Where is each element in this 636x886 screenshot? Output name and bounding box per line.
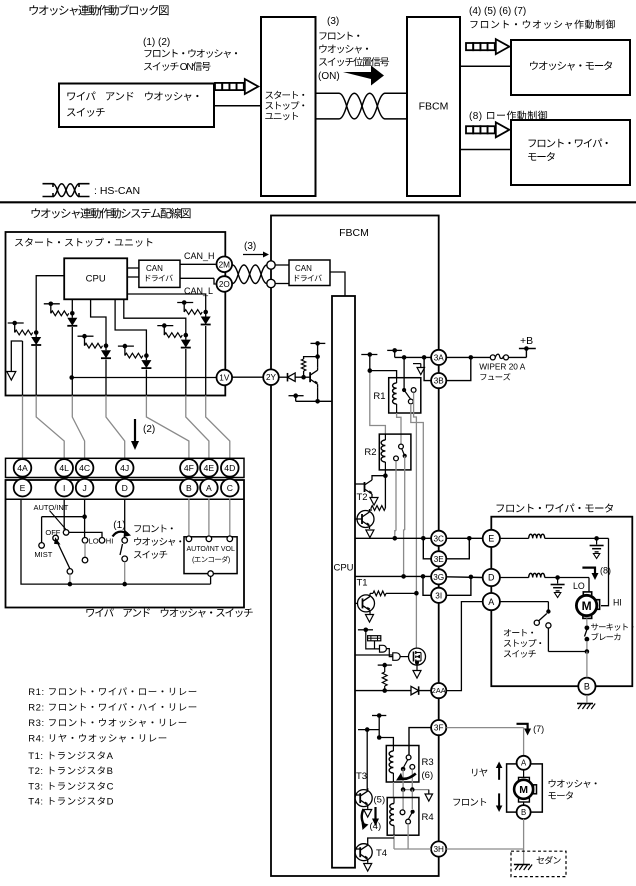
svg-text:AUTO/INT: AUTO/INT [34,503,69,512]
wiper switch outer box [6,480,245,608]
wire to R1 coil [370,355,397,378]
switch internal wires [63,499,65,530]
motor symbol (front wiper) [583,592,591,596]
feed wire cell2 from CPU bottom [71,299,73,313]
T2 lower emitter arrow [366,530,374,538]
E line: inductor + ground + HI feed [500,537,529,539]
wire CPU to 2AA with diode [355,690,431,692]
box: front wiper motor [491,517,632,687]
svg-text:CAN: CAN [146,264,163,273]
svg-text:M: M [582,599,592,613]
svg-text:ウオッシャ連動作動システム配線図: ウオッシャ連動作動システム配線図 [30,206,191,222]
connector row 1 box [6,458,245,477]
svg-text:3B: 3B [434,377,445,386]
R3 bold curved arrow (6) [399,774,416,779]
svg-text:R4: リヤ・ウオッシャ・リレー: R4: リヤ・ウオッシャ・リレー [28,731,167,745]
svg-text:セダン: セダン [536,854,561,867]
bias resistor (2Y stage) [301,359,305,371]
twisted pair start-stop to FBCM (top) [316,92,340,94]
svg-text:フロント・ワイパ・モータ: フロント・ワイパ・モータ [495,501,614,516]
wire CPU to gate2 [355,654,393,656]
svg-text:4C: 4C [79,463,90,473]
T4 base [355,848,360,850]
R4 contacts [400,810,405,815]
svg-text:LO: LO [573,581,585,591]
wire 3A to fuse to +B [446,356,490,358]
washer motor symbol [519,777,530,782]
+B terminal [525,349,527,358]
svg-text:T1: トランジスタA: T1: トランジスタA [28,748,113,762]
svg-text:A: A [488,597,494,607]
svg-text:CAN_H: CAN_H [184,251,215,261]
box: FBCM (wiring) [271,216,439,877]
wire 3I loop to 3G [446,577,471,595]
svg-text:(7): (7) [533,724,544,734]
feed wire cell3 from CPU bottom [91,299,106,345]
pins 4A 4L 4C 4J 4F 4E 4D [14,459,32,477]
svg-text:4D: 4D [224,463,235,473]
svg-text:フロント・ウオッシャ作動制御: フロント・ウオッシャ作動制御 [469,16,616,31]
svg-text:ワイパ アンド ウオッシャ・: ワイパ アンド ウオッシャ・ [66,89,202,104]
pin A (washer) [517,756,531,770]
T2 emitter arrow [370,498,378,506]
contact HI + label [99,538,105,544]
power stubs (washer relays) [372,715,386,717]
svg-text:4A: 4A [17,463,28,473]
pin 2Y [263,369,279,385]
svg-text:スイッチ: スイッチ [503,647,537,660]
emitter to CPU [317,387,319,401]
D line: inductor + ground + LO feed [500,577,529,579]
svg-text:WIPER 20 A: WIPER 20 A [479,362,526,372]
svg-text:1V: 1V [219,373,230,382]
wires 3A/3B common [395,356,431,358]
legend: HS-CAN twisted pair symbol [43,184,54,187]
svg-text:A: A [206,483,212,493]
svg-text:2M: 2M [219,260,231,269]
contact AUTO/INT [63,530,69,536]
pins E I J D B A C [14,479,32,497]
relay R2 box [379,434,411,470]
svg-text:T2: トランジスタB: T2: トランジスタB [28,763,113,777]
T4 emitter arrow [367,862,369,863]
R1 contacts [402,388,406,392]
svg-text:HI: HI [106,537,114,546]
pin 3F [431,720,446,735]
pin B [578,678,595,695]
svg-text:R2: R2 [364,447,376,458]
svg-text:T3: トランジスタC: T3: トランジスタC [28,778,114,792]
auto-stop switch [500,601,549,603]
logic component box [368,636,381,641]
wire gate1 to gate2 [387,649,393,657]
power stubs above 3A wire [361,354,377,356]
wire AUTO/INT contact to HI [69,532,102,537]
wires B A C to encoder [188,499,190,536]
bold arrow (3) [343,66,384,86]
svg-text:(8): (8) [600,566,611,576]
pin B (washer) [517,805,531,819]
resistor + lower transistor (T2 pair) [371,506,385,511]
pull-up cell 1: stub, resistor, diode [8,322,24,324]
svg-text:E: E [20,483,26,493]
feed wire cell1 from CPU left [36,276,64,333]
wire CPU to 3G [355,575,431,577]
svg-text:スイッチ位置信号: スイッチ位置信号 [318,54,390,69]
T3 base [355,794,360,796]
CPU box (start-stop) [64,258,127,299]
pull-up cell 4: stub, resistor, diode [118,345,134,347]
T2 collector to R2 coil [372,476,385,477]
wire 3E loop to 3C [446,538,469,559]
wire 3F to washer motor A with (7) arrow [446,727,523,729]
ground bus in switch box [210,576,212,584]
pull-up cell 5: stub, resistor, diode [157,325,173,327]
contact LO + label [82,538,88,544]
block: start-stop unit [261,17,316,196]
washer motor assembly [507,764,543,812]
svg-text:2O: 2O [219,280,230,289]
T4 collector to R4 coil [368,838,394,842]
wire B to ground / 3H [523,819,525,865]
left bridge 3C to 3E [423,538,431,559]
tall CPU box (FBCM) [332,296,355,868]
wire CAN_L + label [180,277,214,279]
svg-text:AUTO/INT VOL: AUTO/INT VOL [187,546,235,553]
open circles at FBCM entry [267,261,275,269]
pin 3H [431,841,446,856]
pin 2M [217,257,233,273]
svg-text:R3: R3 [422,757,434,768]
sedan dashed box + ground [511,851,566,876]
wire R1 coil bottom to R2 top contact [397,413,401,444]
svg-text:R4: R4 [422,812,434,823]
relay R3 box [386,746,419,783]
fuse WIPER 20A [490,355,495,360]
buffer gate 2 [393,653,400,661]
wires below R4 to 3H [393,835,395,849]
svg-text:E: E [488,534,494,544]
column wires inside start-stop box [35,346,37,396]
svg-text:ドライバ: ドライバ [144,273,174,284]
signal arrow FBCM to washer motor [466,43,473,50]
svg-text:FBCM: FBCM [339,227,369,239]
box: start-stop unit (wiring) [6,232,226,396]
svg-text:MIST: MIST [34,550,52,559]
pin 1V [217,370,233,386]
pins 3C 3E 3G 3I [431,531,446,546]
svg-text:CPU: CPU [86,274,106,285]
svg-text:モータ: モータ [547,788,573,802]
svg-text:(エンコーダ): (エンコーダ) [192,555,230,565]
arrow (2) into switch [134,419,136,443]
transistor T4 [355,844,372,861]
svg-text:B: B [186,483,192,493]
svg-text:ブレーカ: ブレーカ [591,631,622,643]
diode to 2AA [411,686,419,695]
svg-text:3G: 3G [433,573,444,582]
svg-text:CPU: CPU [333,563,353,574]
left bridge 3G to 3I [423,576,431,595]
stub above logic block [358,629,373,631]
svg-text:J: J [82,483,86,493]
T2 lower base [355,518,362,520]
pull-up cell 6: stub, resistor, diode [177,302,193,304]
svg-text:B: B [521,808,526,817]
wire 2AA to A [446,602,483,691]
block: washer motor [511,40,630,95]
extra contact below LO [84,543,86,557]
wires entry to CAN driver [275,264,289,266]
wire R1 fixed contact down to T1 node [414,393,417,649]
pin 2O [217,276,233,292]
AUTO/INT VOL encoder box [184,537,237,574]
wires below R3 [402,782,404,790]
svg-text:R1: フロント・ワイパ・ロー・リレー: R1: フロント・ワイパ・ロー・リレー [28,684,197,698]
svg-text:3I: 3I [435,591,442,600]
arrow (8) at LO [582,568,595,574]
wires below R2 to 3C / 3G [395,461,397,531]
diode after 2Y [279,376,288,378]
MOSFET (washer driver) [409,648,426,665]
svg-text:ウオッシャ連動作動ブロック図: ウオッシャ連動作動ブロック図 [28,3,169,19]
separator line [0,201,636,203]
svg-text:T3: T3 [356,771,367,782]
svg-text:B: B [584,681,590,691]
svg-text:2Y: 2Y [266,373,277,382]
encoder bottom contact [208,571,214,577]
collector stub + rail [317,343,319,367]
circuit breaker [586,618,588,625]
svg-text:4L: 4L [59,463,69,473]
relay R4 box [387,798,419,836]
CAN driver box (start-stop) [139,260,180,287]
wire 1V to 2Y [232,376,263,378]
pin A [483,593,500,610]
grey jog wires from unit to connector row [22,396,24,460]
curved arrow (1) [113,532,128,537]
svg-text:M: M [519,784,528,796]
pin E [483,530,500,547]
svg-text:3A: 3A [434,353,445,362]
feed wire cell5 from CPU bottom [124,299,186,335]
long feed wire to R2 coil [370,371,386,434]
block: front wiper motor [511,120,630,185]
R1 direction arrow [413,363,421,365]
ground below B [586,695,588,703]
block: FBCM [407,17,460,196]
transistor T2 (upper, uncircled) [364,482,366,492]
svg-text:(6): (6) [422,770,434,781]
svg-text:(4): (4) [370,821,382,832]
signal arrow FBCM to front wiper motor [466,126,473,133]
wire R1 contact down to 3C (via jog) [411,404,424,538]
svg-text:スイッチ ON信号: スイッチ ON信号 [143,58,211,73]
svg-text:T4: トランジスタD: T4: トランジスタD [28,794,114,808]
pins 3A 3B [431,350,446,365]
svg-text:ドライバ: ドライバ [293,273,323,284]
svg-text:フューズ: フューズ [479,371,510,383]
pin 2AA [431,683,446,698]
wire switch to start-stop unit [214,105,261,107]
wire 3C to E [446,537,482,539]
svg-text:ユニット: ユニット [265,109,300,123]
contact MIST + label [39,543,45,549]
wire stub to gate1 [366,630,380,649]
wire 3F to R3 contact [409,728,431,755]
MOSFET source arrow down [416,665,418,670]
svg-text:3F: 3F [434,724,444,733]
svg-text:: HS-CAN: : HS-CAN [94,185,140,197]
wire CAN driver to CPU [330,272,345,296]
twisted pair 2M/2O to FBCM [233,265,267,284]
svg-text:フロント: フロント [452,795,487,809]
svg-text:リヤ: リヤ [470,765,488,779]
resistor above 2AA wire [378,664,392,666]
svg-text:CAN: CAN [295,264,312,273]
svg-text:スタート・ストップ・ユニット: スタート・ストップ・ユニット [14,234,154,249]
feed wire cell4 from CPU bottom [115,299,146,355]
svg-text:(5): (5) [374,795,386,806]
svg-text:R2: フロント・ワイパ・ハイ・リレー: R2: フロント・ワイパ・ハイ・リレー [28,700,197,714]
pull-up cell 3: stub, resistor, diode [78,335,94,337]
svg-text:3H: 3H [433,845,444,854]
svg-text:(1): (1) [113,520,125,531]
svg-text:フロント・: フロント・ [133,521,176,535]
svg-text:T4: T4 [376,848,387,859]
svg-text:D: D [488,573,495,583]
coil stub R3 to R4 [392,782,394,798]
svg-text:(ON): (ON) [318,71,340,82]
svg-text:FBCM: FBCM [419,101,449,113]
arrow marker at 4A column [11,341,22,372]
svg-text:HI: HI [613,598,622,608]
washer switch contacts + lever [122,538,128,544]
wire 3A to R1 contact [403,357,405,389]
svg-text:3C: 3C [433,534,444,543]
signal arrow from switch to start-stop unit [215,83,222,90]
wire FBCM to washer motor [460,65,511,67]
T3 collector wire [366,730,368,790]
svg-text:I: I [63,483,65,493]
wire 1V bus [72,377,217,379]
svg-text:T1: T1 [357,578,368,589]
svg-text:(3): (3) [244,241,256,252]
svg-text:ウオッシャ・: ウオッシャ・ [133,534,184,548]
svg-text:D: D [122,483,128,493]
wire 3G to D [446,576,482,579]
R3 contacts [406,755,411,760]
wire CPU to 3C [355,537,431,539]
feed wire cell6 from CPU right [127,294,206,312]
block: wiper and washer switch [59,84,214,128]
wire 3B joins 3A [446,357,471,380]
svg-text:LO: LO [89,537,99,546]
T3 emitter arrow [367,808,369,809]
svg-text:4F: 4F [184,463,194,473]
svg-text:3E: 3E [434,555,445,564]
svg-text:4J: 4J [120,463,129,473]
svg-text:R3: フロント・ウオッシャ・リレー: R3: フロント・ウオッシャ・リレー [28,715,187,729]
svg-text:4E: 4E [204,463,215,473]
R2 contacts [399,444,404,449]
svg-text:A: A [521,759,527,768]
svg-text:ワイパ アンド ウオッシャ・スイッチ: ワイパ アンド ウオッシャ・スイッチ [85,606,253,621]
pull-up cell 2: stub, resistor, diode [44,303,60,305]
svg-text:T2: T2 [357,492,368,503]
wiper mode lever [58,543,70,569]
svg-text:(3): (3) [327,16,339,27]
CAN driver box (FBCM) [289,260,330,286]
relay R1 box [389,378,421,413]
input transistor Q (2Y stage) [309,372,311,382]
svg-text:ウオッシャ・モータ: ウオッシャ・モータ [529,59,613,74]
wire stub to R3 coil [379,716,393,746]
svg-text:R1: R1 [373,391,385,402]
svg-text:(2): (2) [143,424,155,435]
buffer gate 1 [380,645,387,652]
stub near emitter [289,395,304,397]
svg-text:+B: +B [520,335,533,347]
svg-text:モータ: モータ [527,150,556,165]
svg-text:スイッチ: スイッチ [66,105,105,120]
pin D [483,569,500,586]
svg-text:スイッチ: スイッチ [133,547,168,561]
svg-text:C: C [227,483,233,493]
T2 base from CPU [355,483,365,485]
svg-text:2AA: 2AA [432,686,446,695]
wires CPU to CAN driver [127,267,139,269]
wire FBCM to front wiper motor [460,149,511,151]
